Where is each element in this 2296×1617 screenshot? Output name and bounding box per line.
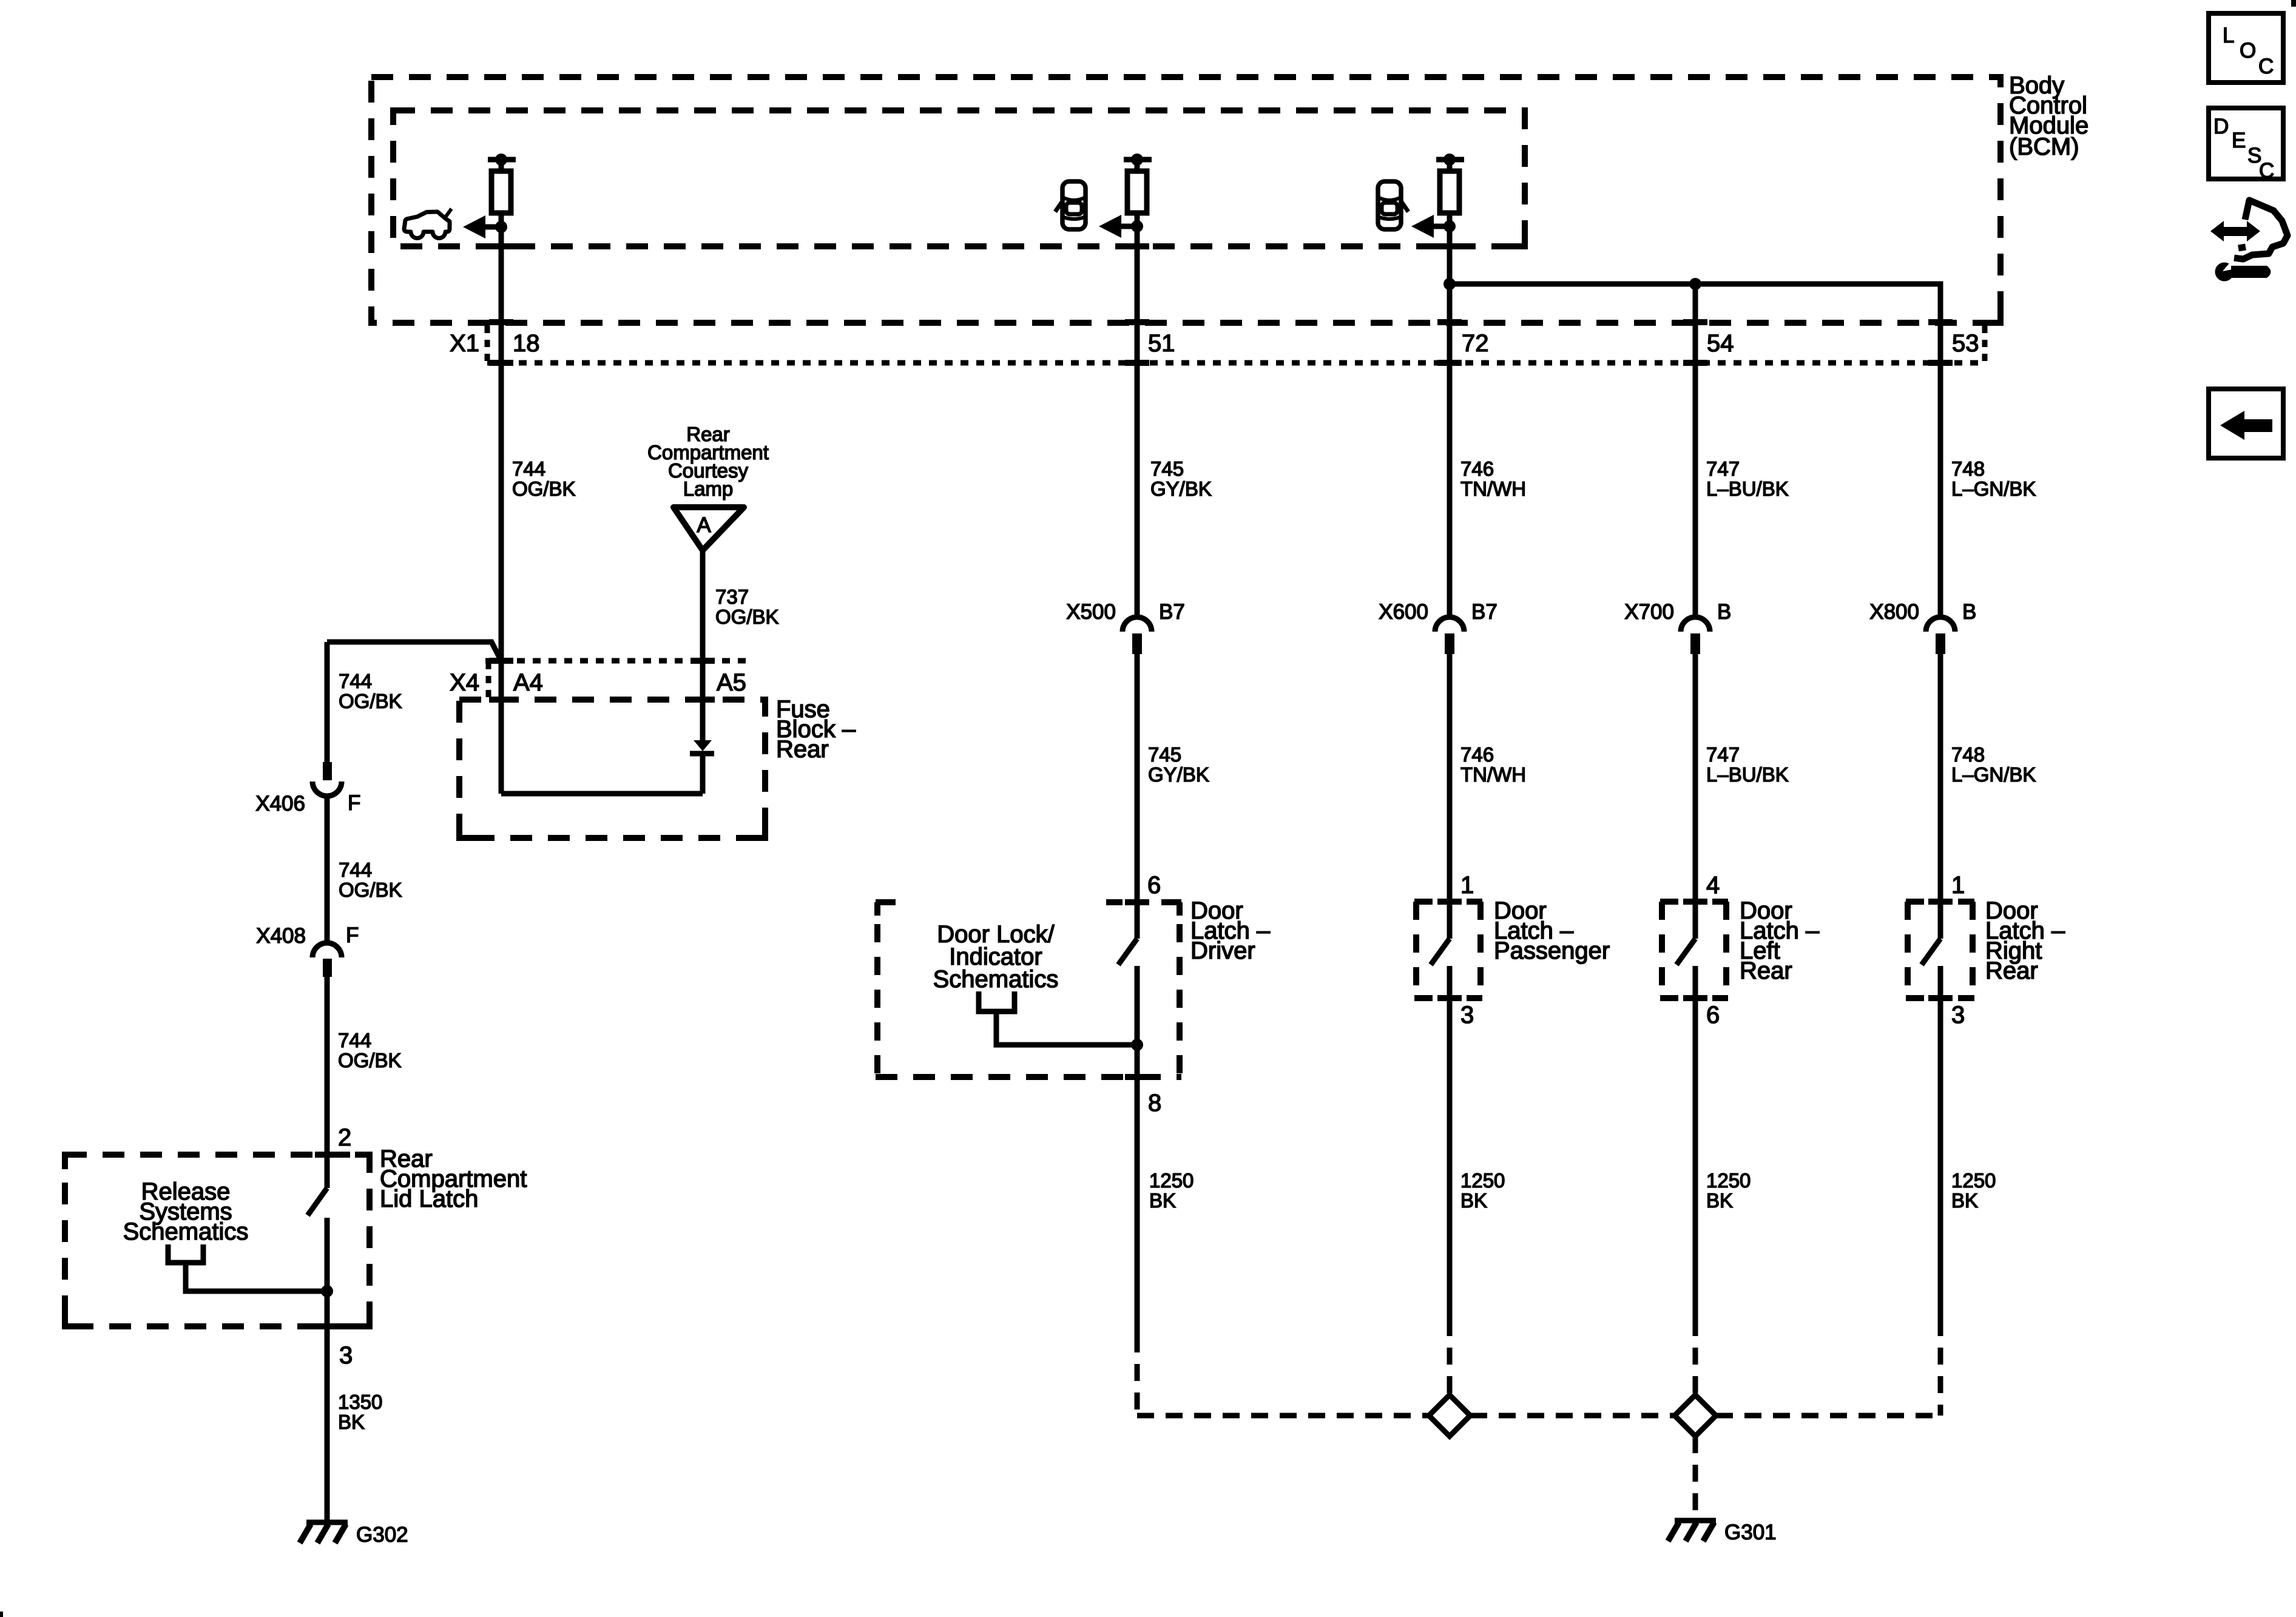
arrow to driver door ajar indicator (1099, 215, 1137, 238)
svg-text:746: 746 (1460, 743, 1494, 766)
svg-text:C: C (2258, 55, 2274, 78)
icon car top view driver door (1055, 181, 1086, 229)
svg-text:Rear: Rear (1985, 957, 2038, 984)
node B+ bar col 2 (1124, 157, 1152, 163)
svg-text:L–GN/BK: L–GN/BK (1951, 478, 2036, 500)
svg-text:BK: BK (1460, 1189, 1487, 1212)
dashed wire passenger to splice (1447, 1319, 1453, 1395)
svg-text:747: 747 (1706, 743, 1740, 766)
door latch passenger box (1414, 902, 1482, 998)
svg-text:X700: X700 (1624, 600, 1674, 624)
label X700 (1624, 600, 1674, 624)
junction dot col 3 (1443, 220, 1456, 232)
page corner mark bottom left (0, 1612, 3, 1617)
junction dot col 2 top (1131, 154, 1143, 166)
svg-text:OG/BK: OG/BK (339, 879, 402, 901)
svg-text:GY/BK: GY/BK (1148, 763, 1209, 786)
wire X406 to X408 (325, 796, 330, 944)
bracket release schematics link (168, 1244, 327, 1291)
svg-text:53: 53 (1952, 330, 1979, 357)
splice S2 diamond (1675, 1395, 1716, 1436)
svg-text:3: 3 (1460, 1002, 1474, 1028)
label Rear Compartment Courtesy Lamp (647, 423, 769, 500)
svg-text:B7: B7 (1159, 600, 1185, 624)
svg-text:B: B (1962, 600, 1976, 624)
svg-text:8: 8 (1148, 1090, 1161, 1116)
pin A5 label (717, 669, 746, 696)
pin 4 label (door latch left rear) (1706, 872, 1720, 899)
switch rear compartment lid latch (308, 1188, 327, 1521)
connector X1 dotted face line (487, 360, 1985, 366)
pin 18 label (513, 330, 540, 357)
dashed wire left rear to splice (1693, 1319, 1698, 1395)
arrow to trunk-ajar indicator (463, 215, 501, 238)
pin 8 label (door latch driver) (1148, 1090, 1161, 1116)
connector X800 in-line (1926, 617, 1955, 654)
svg-text:OG/BK: OG/BK (339, 690, 402, 712)
pin B label (X700) (1717, 600, 1731, 624)
svg-text:1: 1 (1951, 872, 1965, 899)
svg-text:X408: X408 (256, 924, 306, 948)
svg-text:BK: BK (1149, 1189, 1176, 1212)
svg-text:3: 3 (339, 1342, 353, 1369)
door lock indicator schematics box (876, 902, 1181, 1077)
module box BCM inner (393, 110, 1525, 246)
svg-text:BK: BK (1951, 1189, 1978, 1212)
connector X4 separator (486, 662, 491, 698)
junction dot col 2 (1131, 220, 1143, 232)
label X406 (255, 792, 305, 815)
label G301 (1724, 1521, 1777, 1544)
pin B label (X800) (1962, 600, 1976, 624)
icon back button (2209, 389, 2283, 458)
svg-text:L: L (2223, 24, 2234, 47)
wire label 1250 BK (right rear) (1951, 1169, 1996, 1212)
svg-text:737: 737 (715, 586, 749, 608)
svg-text:TN/WH: TN/WH (1460, 478, 1526, 500)
wire label 746 TN/WH (col 3 lower) (1460, 743, 1526, 786)
svg-text:744: 744 (512, 457, 545, 480)
label X408 (256, 924, 306, 948)
wire label 1250 BK (driver) (1149, 1169, 1194, 1212)
ground G301 (1668, 1521, 1716, 1541)
pin 3 label (lid latch) (339, 1342, 353, 1369)
svg-text:4: 4 (1706, 872, 1720, 899)
svg-text:G302: G302 (356, 1523, 408, 1547)
junction dot driver latch (1131, 1039, 1143, 1051)
svg-text:Lamp: Lamp (683, 478, 734, 500)
pin 72 label (1462, 330, 1489, 357)
tick marks inner box bottom crossings (489, 243, 1462, 249)
wire diode to bottom run (700, 754, 706, 794)
svg-text:X500: X500 (1066, 600, 1116, 624)
pin 54 label (1707, 330, 1734, 357)
wire 744 branch down to X406 (325, 642, 330, 762)
pin 1 label (door latch right rear) (1951, 872, 1965, 899)
svg-text:748: 748 (1951, 457, 1985, 480)
connector X700 in-line (1681, 617, 1710, 654)
svg-text:745: 745 (1150, 457, 1184, 480)
connector X500 in-line (1123, 617, 1152, 654)
junction dot branch at col 4 (1689, 278, 1701, 290)
label X4 (450, 669, 479, 696)
junction dot col 3 top (1443, 154, 1456, 166)
svg-text:1250: 1250 (1951, 1169, 1996, 1192)
pin 2 label (lid latch) (338, 1124, 351, 1151)
svg-text:X600: X600 (1379, 600, 1428, 624)
junction dot branch at col 3 (1443, 278, 1456, 290)
svg-text:E: E (2232, 129, 2246, 152)
tick marks left rear latch box (1683, 902, 1707, 998)
resistor R2 (driver door ajar pull-up) (1127, 160, 1147, 213)
svg-text:Schematics: Schematics (123, 1218, 249, 1245)
pin B7 label (X600) (1471, 600, 1497, 624)
wire label 748 L-GN/BK (col 5 upper) (1951, 457, 2036, 500)
svg-text:OG/BK: OG/BK (715, 606, 779, 628)
svg-text:1250: 1250 (1706, 1169, 1751, 1192)
label Body Control Module (BCM) (2009, 72, 2088, 160)
svg-text:6: 6 (1706, 1002, 1720, 1028)
svg-text:BK: BK (338, 1411, 365, 1433)
resistor R1 (trunk ajar input pull-up) (491, 160, 511, 213)
label Door Latch - Right Rear (1985, 897, 2065, 984)
wire label 744 OG/BK (branch middle) (339, 859, 402, 901)
label Door Latch - Left Rear (1740, 897, 1820, 984)
svg-text:TN/WH: TN/WH (1460, 763, 1526, 786)
svg-text:X800: X800 (1869, 600, 1919, 624)
switch door latch left rear (1676, 939, 1695, 1319)
svg-text:18: 18 (513, 330, 540, 357)
svg-text:Lid Latch: Lid Latch (380, 1186, 478, 1212)
label X500 (1066, 600, 1116, 624)
wire label 746 TN/WH (col 3 upper) (1460, 457, 1526, 500)
pin A4 label (513, 669, 543, 696)
resistor R3 (passenger door ajar pull-up) (1440, 160, 1459, 213)
connector X600 in-line (1435, 617, 1464, 654)
svg-text:Passenger: Passenger (1494, 937, 1610, 964)
svg-text:OG/BK: OG/BK (512, 478, 576, 500)
wire col 3 X600 to latch (1447, 654, 1453, 939)
svg-text:Driver: Driver (1190, 937, 1255, 964)
wire label 744 OG/BK (col 1 upper) (512, 457, 576, 500)
svg-text:C: C (2259, 159, 2274, 183)
svg-text:745: 745 (1148, 743, 1181, 766)
label G302 (356, 1523, 408, 1547)
svg-text:1250: 1250 (1460, 1169, 1505, 1192)
wire lamp to fuse block pin A5 (700, 550, 706, 661)
svg-text:744: 744 (339, 670, 372, 692)
node B+ bar col 3 (1436, 157, 1464, 163)
wire branch 72 to 54 and 53 (1450, 284, 1940, 617)
svg-text:F: F (346, 923, 359, 947)
svg-text:Rear: Rear (776, 736, 829, 763)
wire label 745 GY/BK (col 2 upper) (1150, 457, 1212, 500)
svg-text:(BCM): (BCM) (2009, 133, 2079, 160)
wire col 5 X800 to latch (1938, 654, 1943, 939)
tick marks fuse block top (489, 697, 715, 703)
label X800 (1869, 600, 1919, 624)
arrow to passenger door ajar indicator (1411, 215, 1450, 238)
page corner mark top right (2291, 0, 2296, 7)
wire label 1350 BK (338, 1391, 382, 1433)
dashed wire right rear to ground bus (1938, 1319, 1943, 1416)
module box BCM outer (371, 77, 2001, 323)
wire label 745 GY/BK (col 2 lower) (1148, 743, 1209, 786)
pin B7 label (X500) (1159, 600, 1185, 624)
svg-text:1250: 1250 (1149, 1169, 1194, 1192)
pin 6 label (door latch left rear) (1706, 1002, 1720, 1028)
wire label 744 OG/BK (branch lower) (338, 1029, 402, 1072)
switch door latch driver (1118, 939, 1137, 1335)
label Release Systems Schematics (123, 1178, 249, 1245)
svg-text:X1: X1 (450, 330, 479, 357)
svg-text:OG/BK: OG/BK (338, 1049, 402, 1072)
wire jog 744 branch (327, 642, 501, 661)
tick marks door lock box (1125, 902, 1149, 1077)
junction dot lid latch (321, 1285, 333, 1297)
svg-text:Schematics: Schematics (933, 966, 1059, 993)
svg-text:54: 54 (1707, 330, 1734, 357)
svg-text:L–GN/BK: L–GN/BK (1951, 763, 2036, 786)
svg-text:A: A (697, 513, 711, 537)
box corner reinforcements (65, 232, 2001, 1326)
svg-text:2: 2 (338, 1124, 351, 1151)
wire A4 down in fuse block (499, 661, 504, 794)
splice S1 diamond (1429, 1395, 1470, 1436)
wire label 737 OG/BK (715, 586, 779, 628)
svg-text:X4: X4 (450, 669, 479, 696)
fuse block box (459, 700, 765, 838)
svg-text:L–BU/BK: L–BU/BK (1706, 478, 1789, 500)
tick marks X4 row (489, 658, 715, 664)
wire A5 to diode (700, 661, 706, 741)
tick marks release box (315, 1155, 339, 1326)
svg-text:GY/BK: GY/BK (1150, 478, 1212, 500)
junction dot col 1 top (495, 154, 507, 166)
wire col 3 from resistor to connector X600 (1447, 213, 1453, 617)
svg-text:B: B (1717, 600, 1731, 624)
connector X406 in-line (312, 762, 342, 796)
dashed ground bus wire (1137, 1413, 1940, 1419)
svg-text:72: 72 (1462, 330, 1489, 357)
door latch left rear box (1660, 902, 1728, 998)
svg-text:1: 1 (1460, 872, 1474, 899)
connector X4 dotted face line (485, 658, 750, 664)
connector X1 right separator (1982, 326, 1988, 363)
label Fuse Block - Rear (776, 696, 856, 763)
svg-text:B7: B7 (1471, 600, 1497, 624)
svg-text:51: 51 (1148, 330, 1175, 357)
svg-text:A5: A5 (717, 669, 746, 696)
label X600 (1379, 600, 1428, 624)
wire col 2 from resistor to connector X500 (1135, 213, 1140, 617)
pin F label (X408) (346, 923, 359, 947)
icon DESC button (2209, 108, 2283, 183)
node B+ bar col 1 (488, 157, 516, 163)
wire col 4 X700 to latch (1693, 654, 1698, 939)
release systems schematics box (65, 1155, 370, 1326)
svg-text:A4: A4 (513, 669, 543, 696)
svg-text:6: 6 (1147, 872, 1161, 899)
icon car top view passenger door (1378, 181, 1408, 229)
ground G302 (300, 1522, 348, 1543)
icon LOC button (2209, 13, 2283, 83)
icon repair instructions (arrow panel wrench) (2210, 200, 2288, 282)
pin 53 label (1952, 330, 1979, 357)
wire X408 to lid latch switch (325, 977, 330, 1188)
wire col 1 from resistor to X4 row (499, 213, 504, 661)
svg-text:BK: BK (1706, 1189, 1733, 1212)
bracket door lock schematics link (979, 991, 1137, 1045)
switch door latch right rear (1922, 939, 1940, 1319)
svg-text:1350: 1350 (338, 1391, 382, 1413)
svg-text:748: 748 (1951, 743, 1985, 766)
svg-text:746: 746 (1460, 457, 1494, 480)
pin 3 label (door latch passenger) (1460, 1002, 1474, 1028)
svg-text:G301: G301 (1724, 1521, 1777, 1544)
label Door Latch - Driver (1190, 897, 1271, 964)
wire label 747 L-BU/BK (col 4 lower) (1706, 743, 1789, 786)
junction dot col 1 (495, 221, 507, 233)
svg-text:D: D (2213, 115, 2229, 138)
lamp symbol A (rear compartment courtesy lamp) (674, 507, 744, 550)
label Door Lock/Indicator Schematics (933, 921, 1059, 993)
wire label 744 OG/BK (branch upper) (339, 670, 402, 712)
wire col 4 down to connector X700 (1693, 284, 1698, 617)
tick marks right rear latch box (1928, 902, 1953, 998)
svg-text:X406: X406 (255, 792, 305, 815)
pin 1 label (door latch passenger) (1460, 872, 1474, 899)
dashed wire splice to ground G301 (1693, 1436, 1698, 1519)
svg-text:Rear: Rear (1740, 957, 1792, 984)
wire label 1250 BK (passenger) (1460, 1169, 1505, 1212)
svg-text:744: 744 (338, 1029, 371, 1052)
connector X1 left separator (485, 326, 490, 363)
svg-text:F: F (348, 791, 360, 815)
icon car side view (trunk open) (404, 209, 451, 238)
svg-text:O: O (2240, 39, 2256, 62)
svg-text:747: 747 (1706, 457, 1740, 480)
wire col 2 X500 to latch (1135, 654, 1140, 939)
tick marks passenger latch box (1437, 902, 1462, 998)
door latch right rear box (1906, 902, 1974, 998)
svg-text:L–BU/BK: L–BU/BK (1706, 763, 1789, 786)
label X1 (450, 330, 479, 357)
tick marks outer box bottom pin row (489, 319, 1953, 325)
switch door latch passenger (1431, 939, 1450, 1319)
wire label 748 L-GN/BK (col 5 lower) (1951, 743, 2036, 786)
wire label 747 L-BU/BK (col 4 upper) (1706, 457, 1789, 500)
wire label 1250 BK (left rear) (1706, 1169, 1751, 1212)
pin 3 label (door latch right rear) (1951, 1002, 1965, 1028)
tick marks dotted face row (489, 360, 1953, 366)
svg-text:744: 744 (339, 859, 372, 881)
label Rear Compartment Lid Latch (380, 1146, 527, 1212)
pin 6 label (door latch driver) (1147, 872, 1161, 899)
dashed wire driver to ground bus (1135, 1335, 1140, 1416)
svg-text:3: 3 (1951, 1002, 1965, 1028)
connector X408 in-line (312, 943, 342, 977)
pin F label (X406) (348, 791, 360, 815)
pin 51 label (1148, 330, 1175, 357)
diode D1 in fuse block (690, 740, 714, 754)
label Door Latch - Passenger (1494, 897, 1610, 964)
wire bottom run in fuse block (501, 791, 703, 797)
